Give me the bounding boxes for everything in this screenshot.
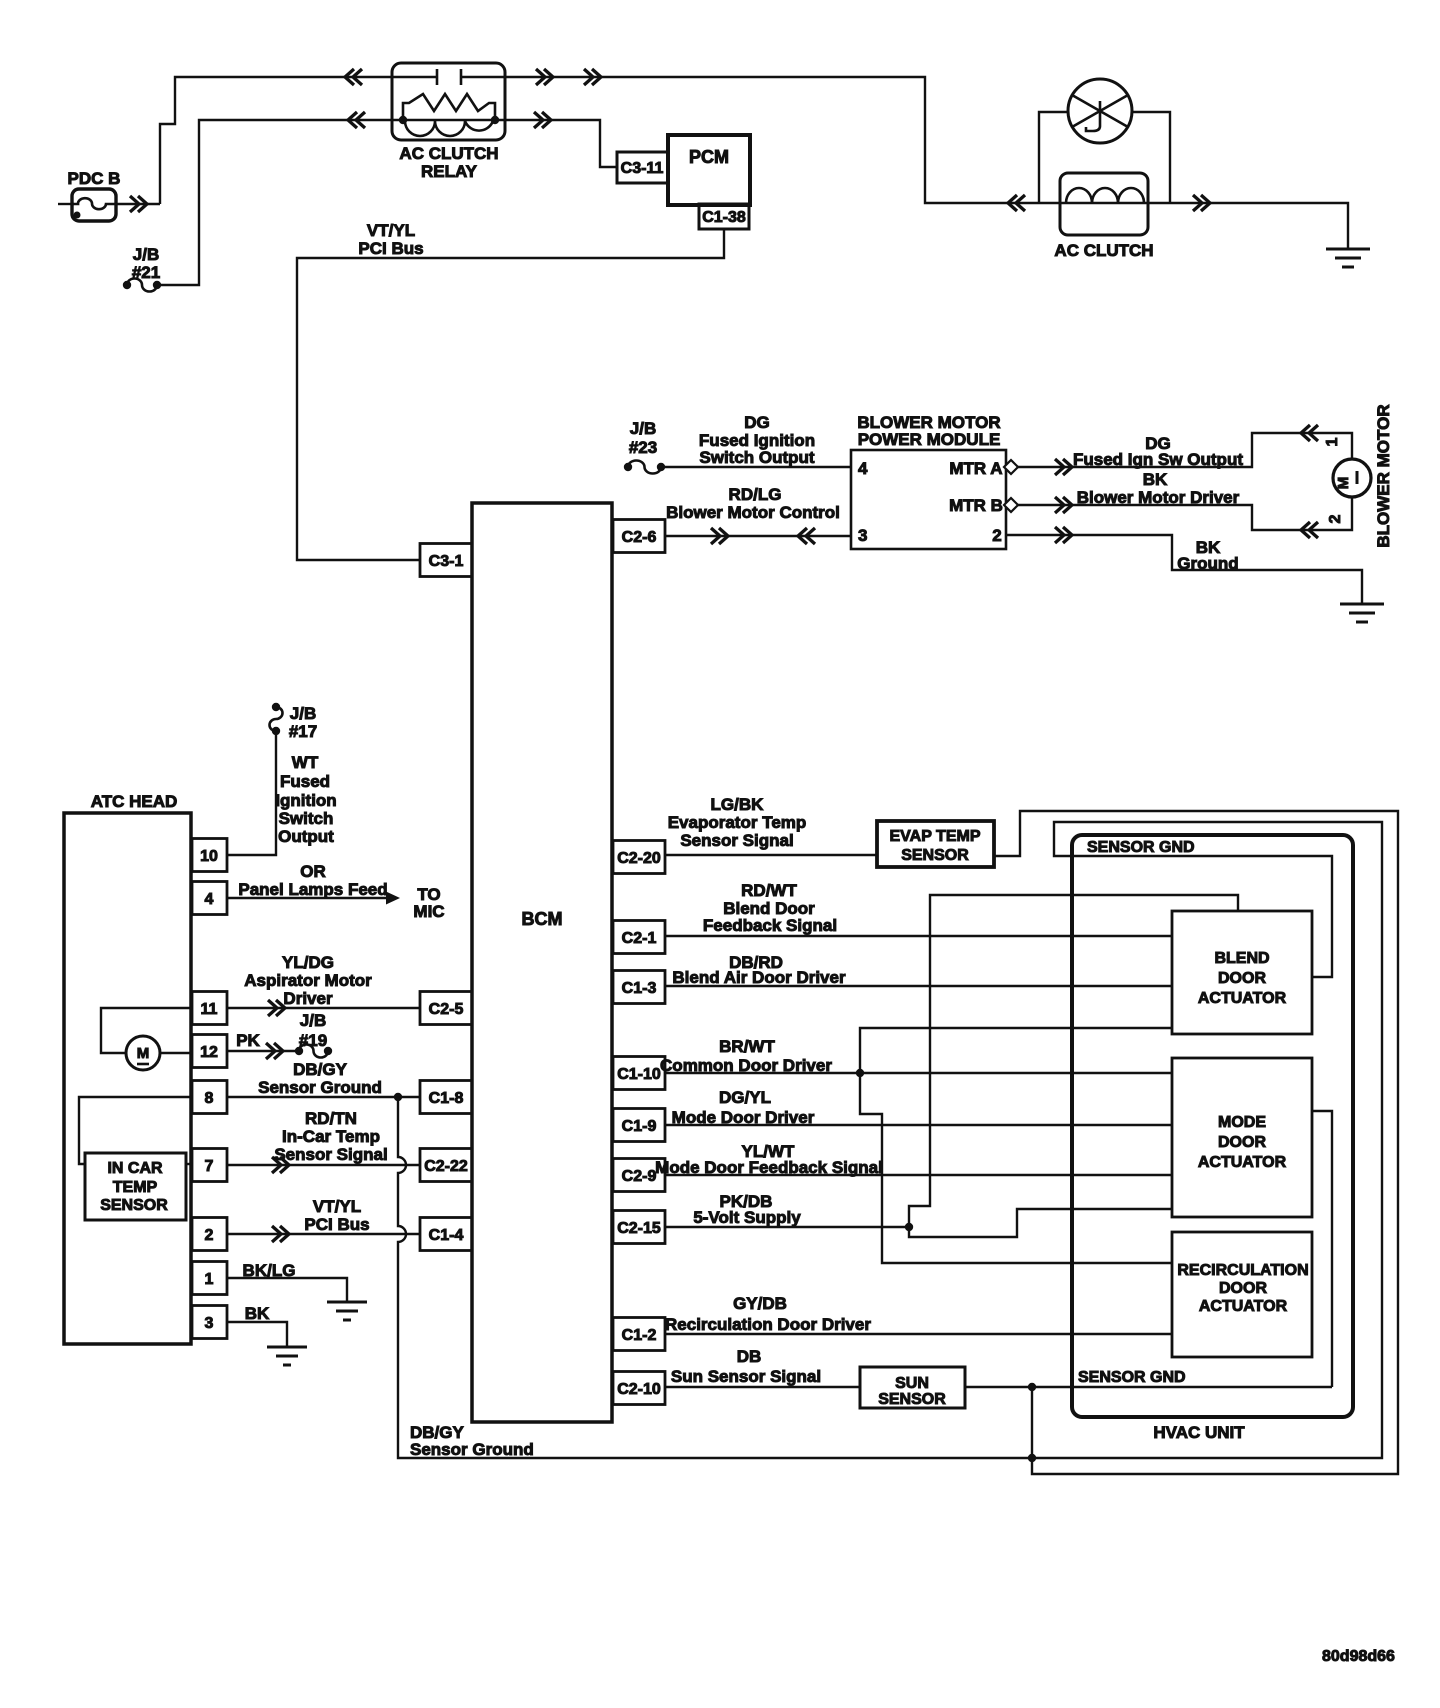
- svg-text:2: 2: [1327, 514, 1344, 523]
- svg-text:J/B: J/B: [630, 419, 656, 438]
- svg-text:Feedback Signal: Feedback Signal: [703, 916, 837, 935]
- svg-text:BK/LG: BK/LG: [243, 1261, 296, 1280]
- svg-text:MTR B: MTR B: [949, 496, 1003, 515]
- svg-text:VT/YL: VT/YL: [367, 221, 415, 240]
- svg-text:ACTUATOR: ACTUATOR: [1199, 1298, 1288, 1315]
- svg-text:EVAP TEMP: EVAP TEMP: [890, 828, 981, 845]
- svg-text:ATC HEAD: ATC HEAD: [91, 792, 178, 811]
- svg-text:SENSOR GND: SENSOR GND: [1078, 1369, 1186, 1386]
- svg-text:SENSOR: SENSOR: [878, 1391, 946, 1408]
- svg-text:PK: PK: [236, 1031, 260, 1050]
- svg-text:Mode Door Driver: Mode Door Driver: [672, 1108, 815, 1127]
- svg-text:Driver: Driver: [283, 989, 333, 1008]
- svg-text:BK: BK: [245, 1304, 270, 1323]
- svg-text:80d98d66: 80d98d66: [1322, 1648, 1395, 1665]
- svg-text:DB: DB: [737, 1347, 762, 1366]
- svg-text:C2-9: C2-9: [622, 1168, 657, 1185]
- svg-text:RD/LG: RD/LG: [729, 485, 782, 504]
- svg-text:#17: #17: [289, 722, 317, 741]
- svg-text:BCM: BCM: [522, 909, 563, 929]
- svg-text:SENSOR: SENSOR: [100, 1197, 168, 1214]
- svg-text:M: M: [1335, 477, 1352, 490]
- svg-text:Aspirator Motor: Aspirator Motor: [244, 971, 372, 990]
- svg-text:Panel Lamps Feed: Panel Lamps Feed: [238, 880, 387, 899]
- svg-text:Blend Air Door Driver: Blend Air Door Driver: [672, 968, 846, 987]
- svg-text:PDC B: PDC B: [68, 169, 121, 188]
- svg-text:4: 4: [205, 891, 214, 908]
- svg-text:ACTUATOR: ACTUATOR: [1198, 1154, 1287, 1171]
- svg-text:C2-6: C2-6: [622, 529, 657, 546]
- svg-text:Sensor Signal: Sensor Signal: [274, 1145, 387, 1164]
- svg-text:WT: WT: [292, 753, 319, 772]
- svg-text:ACTUATOR: ACTUATOR: [1198, 990, 1287, 1007]
- svg-text:J/B: J/B: [290, 704, 316, 723]
- svg-text:2: 2: [205, 1227, 214, 1244]
- svg-text:8: 8: [205, 1090, 214, 1107]
- svg-text:C2-5: C2-5: [429, 1001, 464, 1018]
- svg-text:C2-10: C2-10: [617, 1381, 661, 1398]
- svg-text:C1-2: C1-2: [622, 1327, 657, 1344]
- svg-text:Common Door Driver: Common Door Driver: [660, 1056, 832, 1075]
- svg-text:GY/DB: GY/DB: [733, 1294, 787, 1313]
- svg-text:AC CLUTCH: AC CLUTCH: [1054, 241, 1153, 260]
- svg-text:4: 4: [858, 459, 868, 478]
- svg-text:Ignition: Ignition: [275, 791, 336, 810]
- svg-text:#23: #23: [629, 438, 657, 457]
- svg-text:Blower Motor Driver: Blower Motor Driver: [1077, 488, 1240, 507]
- svg-text:C2-15: C2-15: [617, 1220, 661, 1237]
- svg-text:Fused: Fused: [280, 772, 330, 791]
- svg-text:3: 3: [205, 1315, 214, 1332]
- svg-text:C2-1: C2-1: [622, 930, 657, 947]
- svg-text:BR/WT: BR/WT: [719, 1037, 775, 1056]
- svg-text:2: 2: [992, 526, 1001, 545]
- svg-text:J/B: J/B: [133, 245, 159, 264]
- svg-text:HVAC UNIT: HVAC UNIT: [1153, 1423, 1245, 1442]
- svg-text:Sun Sensor Signal: Sun Sensor Signal: [671, 1367, 821, 1386]
- svg-text:DOOR: DOOR: [1218, 1134, 1266, 1151]
- svg-text:DG: DG: [744, 413, 770, 432]
- svg-text:SUN: SUN: [895, 1375, 929, 1392]
- svg-text:Ground: Ground: [1177, 554, 1238, 573]
- svg-text:C1-38: C1-38: [702, 209, 746, 226]
- svg-text:PCI Bus: PCI Bus: [304, 1215, 369, 1234]
- svg-text:Recirculation Door Driver: Recirculation Door Driver: [665, 1315, 871, 1334]
- svg-text:PCM: PCM: [689, 147, 729, 167]
- svg-text:C1-10: C1-10: [617, 1066, 661, 1083]
- svg-text:C1-8: C1-8: [429, 1090, 464, 1107]
- svg-text:C1-3: C1-3: [622, 980, 657, 997]
- svg-text:J/B: J/B: [300, 1011, 326, 1030]
- svg-text:In-Car Temp: In-Car Temp: [282, 1127, 380, 1146]
- svg-text:Sensor Ground: Sensor Ground: [410, 1440, 534, 1459]
- svg-text:C1-9: C1-9: [622, 1118, 657, 1135]
- svg-text:C3-11: C3-11: [621, 160, 664, 177]
- svg-text:Blower Motor Control: Blower Motor Control: [666, 503, 840, 522]
- svg-text:IN CAR: IN CAR: [107, 1160, 163, 1177]
- svg-text:BK: BK: [1143, 470, 1168, 489]
- svg-text:Switch Output: Switch Output: [699, 448, 815, 467]
- svg-text:Sensor Ground: Sensor Ground: [258, 1078, 382, 1097]
- svg-text:Mode Door Feedback Signal: Mode Door Feedback Signal: [655, 1158, 883, 1177]
- svg-text:RELAY: RELAY: [421, 162, 478, 181]
- svg-text:PCI Bus: PCI Bus: [358, 239, 423, 258]
- svg-text:Sensor Signal: Sensor Signal: [680, 831, 793, 850]
- svg-text:12: 12: [200, 1044, 218, 1061]
- svg-text:MTR A: MTR A: [949, 459, 1002, 478]
- svg-text:DG/YL: DG/YL: [719, 1088, 771, 1107]
- svg-text:VT/YL: VT/YL: [313, 1197, 361, 1216]
- svg-text:1: 1: [1324, 437, 1341, 446]
- svg-text:10: 10: [200, 848, 218, 865]
- svg-text:C1-4: C1-4: [429, 1227, 464, 1244]
- svg-text:SENSOR: SENSOR: [901, 847, 969, 864]
- svg-text:BLEND: BLEND: [1214, 950, 1269, 967]
- svg-text:DB/GY: DB/GY: [293, 1060, 348, 1079]
- svg-text:3: 3: [858, 526, 867, 545]
- svg-text:RD/TN: RD/TN: [305, 1109, 357, 1128]
- svg-text:7: 7: [205, 1158, 214, 1175]
- svg-text:POWER MODULE: POWER MODULE: [858, 430, 1001, 449]
- svg-text:Evaporator Temp: Evaporator Temp: [668, 813, 807, 832]
- svg-text:Switch: Switch: [279, 809, 334, 828]
- svg-text:C2-22: C2-22: [424, 1158, 468, 1175]
- svg-text:5-Volt Supply: 5-Volt Supply: [693, 1208, 801, 1227]
- svg-text:RD/WT: RD/WT: [741, 881, 797, 900]
- svg-text:C3-1: C3-1: [429, 553, 464, 570]
- svg-text:MIC: MIC: [413, 902, 444, 921]
- svg-text:Fused Ign Sw Output: Fused Ign Sw Output: [1073, 450, 1243, 469]
- svg-text:RECIRCULATION: RECIRCULATION: [1177, 1262, 1308, 1279]
- svg-text:OR: OR: [300, 862, 326, 881]
- svg-text:1: 1: [205, 1271, 214, 1288]
- svg-text:AC CLUTCH: AC CLUTCH: [399, 144, 498, 163]
- svg-text:YL/DG: YL/DG: [282, 953, 334, 972]
- svg-text:C2-20: C2-20: [617, 850, 661, 867]
- svg-text:LG/BK: LG/BK: [711, 795, 765, 814]
- svg-text:SENSOR GND: SENSOR GND: [1087, 839, 1195, 856]
- svg-text:BLOWER MOTOR: BLOWER MOTOR: [1374, 404, 1393, 547]
- svg-text:DOOR: DOOR: [1218, 970, 1266, 987]
- svg-text:MODE: MODE: [1218, 1114, 1266, 1131]
- svg-text:DOOR: DOOR: [1219, 1280, 1267, 1297]
- svg-text:11: 11: [201, 1001, 218, 1018]
- svg-text:TEMP: TEMP: [113, 1179, 158, 1196]
- svg-text:M: M: [137, 1045, 150, 1062]
- svg-text:Output: Output: [278, 827, 334, 846]
